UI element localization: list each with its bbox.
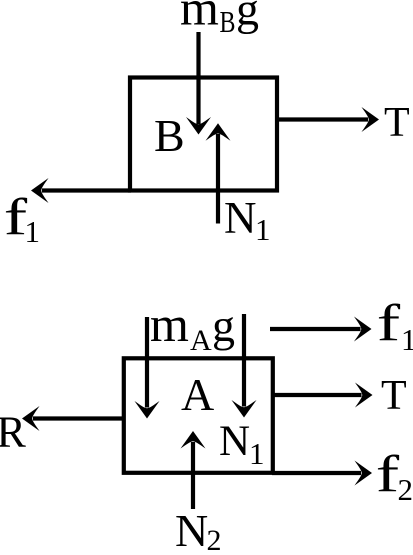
wire: f2 arrow shaft <box>272 471 361 475</box>
svg-text:m: m <box>150 296 189 352</box>
svg-text:g: g <box>212 300 235 351</box>
wire: f1 arrow shaft <box>42 188 131 192</box>
svg-text:2: 2 <box>398 472 413 507</box>
wire: f1 arrow shaft (bottom diagram) <box>270 327 361 331</box>
svg-text:2: 2 <box>207 524 222 555</box>
arrowhead T right (bottom) <box>355 383 373 408</box>
svg-text:B: B <box>220 4 236 39</box>
svg-text:A: A <box>190 324 212 357</box>
wire: mBg arrow shaft <box>196 32 200 124</box>
svg-text:R: R <box>0 408 27 457</box>
wire: N2 up arrow shaft <box>191 442 195 509</box>
svg-text:B: B <box>154 110 185 161</box>
svg-text:f: f <box>376 446 400 503</box>
svg-text:N: N <box>219 418 250 465</box>
svg-text:1: 1 <box>249 436 265 471</box>
svg-text:m: m <box>180 0 219 36</box>
arrowhead f1 right (bottom) <box>354 317 372 342</box>
svg-text:A: A <box>181 369 214 420</box>
arrowhead N1 (up) <box>206 123 231 141</box>
arrowhead N1 down (bottom) <box>232 400 257 418</box>
arrowhead R (left) <box>22 406 40 431</box>
svg-text:N: N <box>224 193 257 243</box>
arrowhead f2 right <box>355 461 373 486</box>
svg-text:1: 1 <box>255 212 271 247</box>
svg-text:f: f <box>377 295 401 352</box>
wire: R arrow shaft <box>33 416 123 420</box>
svg-text:N: N <box>175 505 208 555</box>
svg-text:1: 1 <box>25 214 41 249</box>
svg-text:1: 1 <box>401 322 413 357</box>
arrowhead T (right) <box>362 107 380 132</box>
arrowhead f1 (left) <box>31 178 49 203</box>
arrowhead mBg (down) <box>186 117 211 135</box>
svg-text:T: T <box>381 373 407 419</box>
wire: N1 down arrow shaft (bottom) <box>242 314 246 407</box>
block A <box>124 358 273 473</box>
block B <box>130 78 277 191</box>
svg-text:g: g <box>236 0 259 35</box>
wire: N1 up arrow shaft <box>216 134 220 224</box>
wire: T arrow shaft <box>277 117 368 121</box>
arrowhead N2 (up) <box>181 431 206 449</box>
wire: mAg arrow shaft <box>145 317 149 408</box>
svg-text:T: T <box>384 100 410 146</box>
arrowhead mAg (down) <box>135 401 160 419</box>
wire: T arrow shaft (bottom diagram) <box>271 393 362 397</box>
